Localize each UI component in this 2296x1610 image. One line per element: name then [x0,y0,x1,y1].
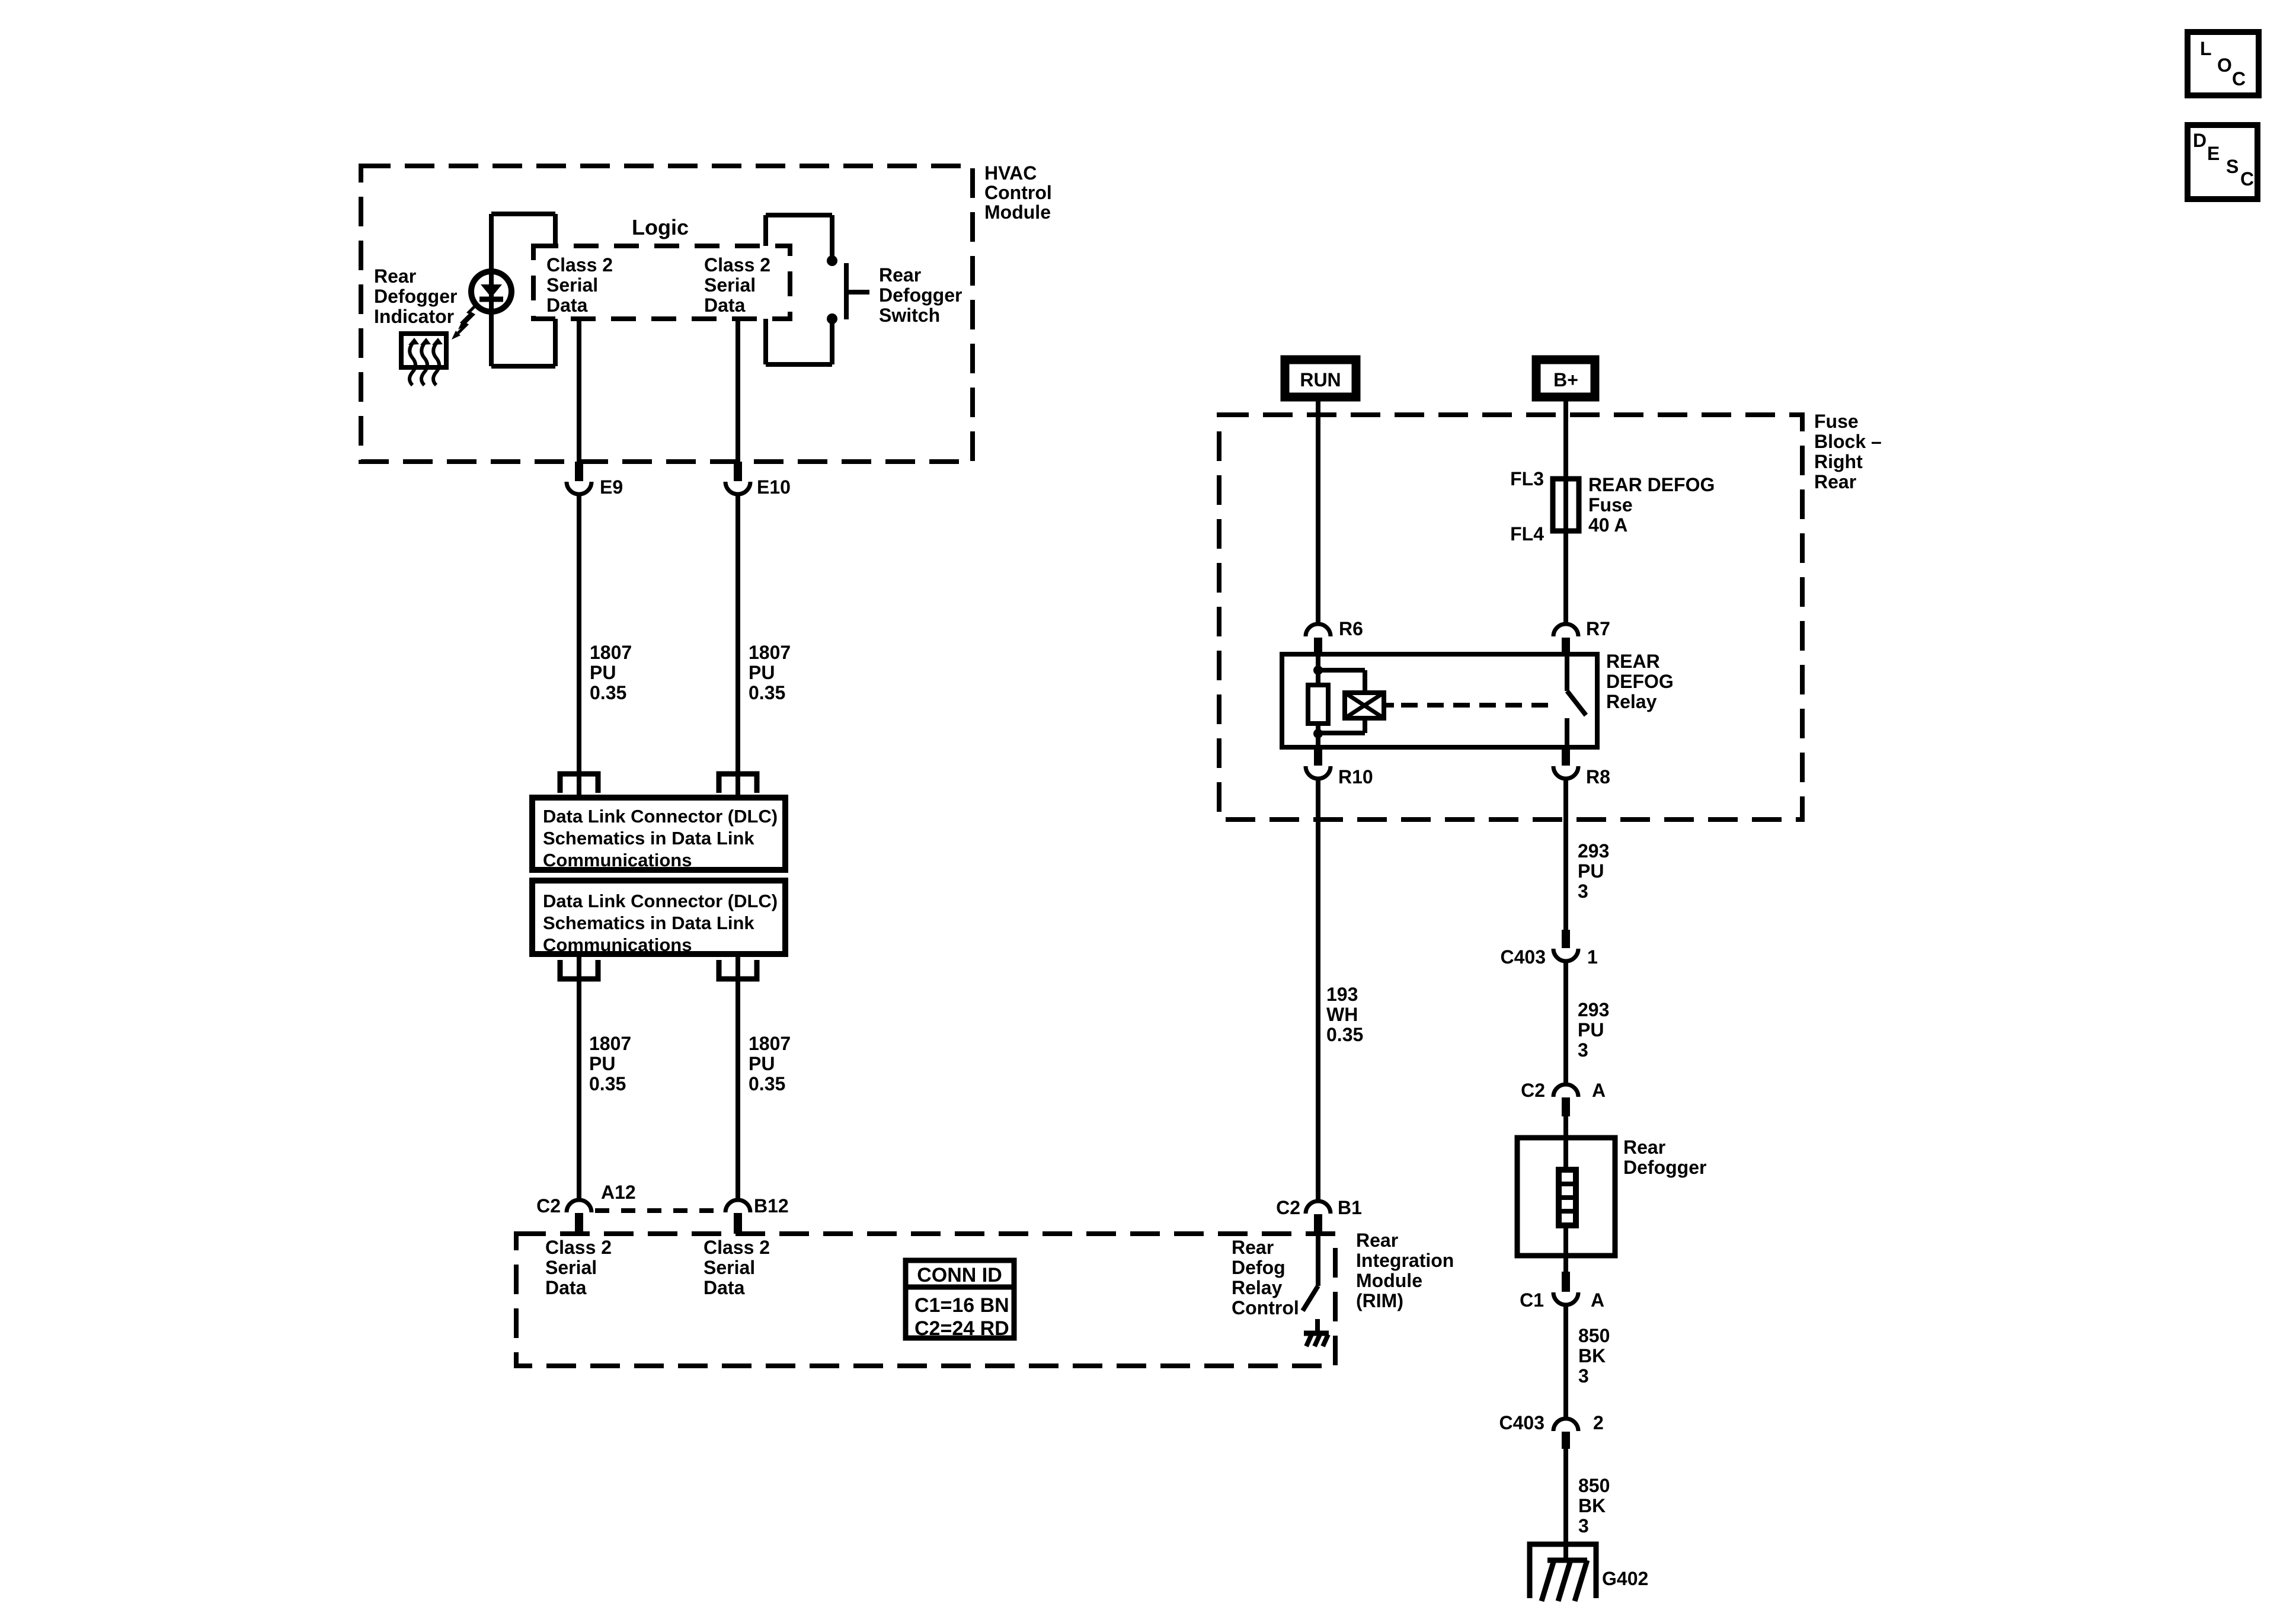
svg-text:FL4: FL4 [1510,523,1544,545]
wire 1807 PU right upper [736,495,740,798]
svg-text:Switch: Switch [879,305,940,326]
svg-text:Rear: Rear [1623,1137,1665,1158]
pin E9 [567,462,591,494]
pin A12 [567,1200,591,1234]
label 1807 PU 0.35 left upper [590,642,632,703]
svg-text:E10: E10 [757,476,791,498]
svg-text:Module: Module [984,201,1051,223]
connector C2 dashed link [595,1208,722,1213]
label 1807 PU 0.35 right lower [749,1033,791,1094]
svg-text:1807: 1807 [590,642,632,663]
Rear Integration Module box [516,1234,1335,1366]
svg-text:PU: PU [1578,1019,1604,1041]
svg-text:C2=24 RD: C2=24 RD [914,1317,1009,1340]
wire 850 BK lower [1563,1449,1568,1560]
wire 293 PU upper [1563,779,1568,930]
svg-text:40 A: 40 A [1588,514,1627,536]
C2 label A12 [536,1195,561,1217]
pin R10 [1306,747,1331,779]
relay linkage [1384,703,1554,708]
E10 label [757,476,791,498]
Rear Defogger Indicator label [374,265,457,327]
ground G402 [1530,1544,1596,1601]
A12 label [601,1182,636,1203]
svg-text:Rear: Rear [1232,1237,1274,1258]
svg-text:Data: Data [545,1277,587,1298]
svg-text:0.35: 0.35 [1326,1024,1363,1045]
svg-text:Class 2: Class 2 [545,1237,612,1258]
svg-text:Fuse: Fuse [1588,494,1633,516]
svg-text:PU: PU [589,1053,615,1074]
connector C2 pin A [1553,1084,1578,1116]
label 293 PU 3 upper [1578,840,1609,902]
svg-text:Rear: Rear [1814,471,1856,492]
pin E10 [725,462,750,494]
relay coil branch [1318,670,1365,733]
svg-text:Serial: Serial [703,1257,755,1278]
Class 2 Serial Data bottom right [703,1237,770,1298]
B1 label [1338,1197,1362,1218]
C403 label 1 [1501,946,1598,968]
svg-text:R8: R8 [1586,766,1610,788]
R8 label [1586,766,1610,788]
pin B1 [1306,1201,1331,1234]
switch actuator [846,263,869,319]
svg-text:PU: PU [590,662,616,683]
DESC icon [2188,125,2257,199]
svg-text:REAR: REAR [1606,651,1660,672]
svg-text:(RIM): (RIM) [1356,1290,1403,1311]
Fuse Block label [1814,411,1882,492]
svg-text:Class 2: Class 2 [546,254,613,276]
svg-text:Data: Data [704,295,746,316]
svg-text:Logic: Logic [632,215,689,239]
E9 label [600,476,623,498]
Class 2 Serial Data bottom left [545,1237,612,1298]
svg-text:B+: B+ [1553,369,1578,391]
RIM ground [1304,1333,1329,1346]
wire 293 PU lower [1563,962,1568,1084]
LED indicator lamp [471,271,511,312]
svg-text:Defogger: Defogger [879,284,962,306]
svg-text:Fuse: Fuse [1814,411,1859,432]
wire 193 WH [1316,779,1320,1201]
svg-text:C2: C2 [1521,1080,1545,1101]
svg-text:Defogger: Defogger [1623,1157,1706,1178]
svg-text:HVAC: HVAC [984,162,1037,184]
wire E10 drop [736,319,740,462]
label 293 PU 3 lower [1578,999,1609,1061]
svg-text:R10: R10 [1338,766,1373,788]
R10 label [1338,766,1373,788]
svg-text:Serial: Serial [704,274,756,296]
Rear Integration Module label [1356,1230,1454,1311]
svg-text:C2: C2 [536,1195,561,1217]
Class 2 Serial Data label left [546,254,613,316]
svg-text:PU: PU [749,662,775,683]
svg-text:C403: C403 [1501,946,1546,968]
svg-text:Class 2: Class 2 [704,254,770,276]
Rear Defogger label [1623,1137,1706,1178]
defogger indicator icon [401,334,446,385]
svg-text:1: 1 [1587,946,1598,968]
label 850 BK 3 upper [1578,1325,1610,1387]
Logic block box [533,246,790,319]
R7 label [1586,618,1610,639]
Data Link Connector box 2 [532,881,785,955]
svg-text:PU: PU [1578,860,1604,882]
svg-text:C: C [2240,168,2254,190]
svg-text:Serial: Serial [546,274,598,296]
relay coil feed [1316,654,1320,670]
svg-text:C1: C1 [1520,1289,1544,1311]
Data Link Connector box 1 [532,798,785,870]
svg-text:REAR DEFOG: REAR DEFOG [1588,474,1715,495]
label 850 BK 3 lower [1578,1475,1610,1537]
label 1807 PU 0.35 left lower [589,1033,631,1094]
wire 850 BK upper [1563,1306,1568,1418]
svg-text:3: 3 [1578,1039,1588,1061]
svg-text:Control: Control [984,182,1052,203]
svg-text:0.35: 0.35 [590,682,626,703]
svg-text:3: 3 [1578,1365,1589,1387]
svg-text:Block –: Block – [1814,431,1882,452]
svg-text:1807: 1807 [749,1033,791,1054]
svg-text:Data: Data [703,1277,745,1298]
svg-text:1807: 1807 [749,642,791,663]
svg-text:R6: R6 [1339,618,1363,639]
svg-text:S: S [2226,156,2239,177]
Rear Defogger Switch label [879,264,962,326]
defogger element [1559,1138,1576,1256]
wire to RIM ground [1315,1319,1320,1333]
svg-text:R7: R7 [1586,618,1610,639]
rear defogger switch contacts [827,255,837,324]
svg-text:A: A [1592,1080,1606,1101]
CONN ID table [903,1260,1016,1340]
wire E9 drop [577,319,581,462]
relay resistor [1308,670,1328,733]
wire defogger out [1563,1256,1568,1272]
pin R8 [1553,747,1578,779]
wire relay control [1316,1234,1320,1286]
fuse label [1588,474,1715,536]
svg-text:193: 193 [1326,984,1358,1005]
svg-text:E: E [2207,143,2220,164]
wire switch loop [766,215,832,364]
svg-text:BK: BK [1578,1495,1606,1516]
svg-text:0.35: 0.35 [749,682,785,703]
G402 label [1602,1568,1648,1589]
svg-text:C: C [2232,68,2246,89]
DLC top connector brackets [560,774,757,793]
svg-text:B1: B1 [1338,1197,1362,1218]
svg-text:B12: B12 [754,1195,789,1217]
fuse REAR DEFOG 40A [1553,479,1579,531]
svg-text:WH: WH [1326,1004,1358,1025]
R6 label [1339,618,1363,639]
connector C403 pin 2 [1553,1419,1578,1449]
svg-text:Class 2: Class 2 [703,1237,770,1258]
label 1807 PU 0.35 right upper [749,642,791,703]
C2 label defogger [1521,1080,1606,1101]
FL4 label [1510,523,1544,545]
pin R7 [1553,624,1578,654]
C1 label [1520,1289,1604,1311]
Class 2 Serial Data label right [704,254,770,316]
wire 1807 PU right lower [736,954,740,1200]
wire 1807 PU left upper [577,495,581,798]
svg-text:293: 293 [1578,999,1609,1020]
svg-text:Data: Data [546,295,588,316]
wire fuse to R7 [1563,536,1568,624]
svg-text:Defogger: Defogger [374,286,457,307]
svg-text:1807: 1807 [589,1033,631,1054]
svg-text:Schematics in Data Link: Schematics in Data Link [543,828,754,849]
svg-text:C2: C2 [1276,1197,1300,1218]
svg-text:Relay: Relay [1232,1277,1283,1298]
svg-text:3: 3 [1578,1515,1589,1537]
svg-text:3: 3 [1578,881,1588,902]
relay coil element [1345,693,1384,718]
svg-text:293: 293 [1578,840,1609,862]
svg-text:Data Link Connector (DLC): Data Link Connector (DLC) [543,806,778,827]
Rear Defogger box [1517,1138,1615,1256]
connector C403 pin 1 [1553,930,1578,961]
wire resistor out [1316,734,1320,747]
Logic label [632,215,689,239]
svg-text:CONN ID: CONN ID [917,1264,1002,1286]
C403 label 2 [1499,1412,1604,1433]
junction dot bottom [1313,729,1323,738]
svg-text:C1=16 BN: C1=16 BN [914,1294,1009,1317]
B12 label [754,1195,789,1217]
svg-text:Module: Module [1356,1270,1422,1291]
HVAC Control Module box [361,166,973,462]
wire 1807 PU left lower [577,954,581,1200]
svg-text:Rear: Rear [1356,1230,1398,1251]
RIM switch blade [1303,1286,1318,1311]
junction dot top [1313,665,1323,675]
LED light arrows [452,303,478,340]
svg-text:Relay: Relay [1606,691,1657,712]
svg-text:PU: PU [749,1053,775,1074]
svg-text:L: L [2200,38,2212,59]
label 193 WH 0.35 [1326,984,1363,1045]
pin B12 [725,1200,750,1234]
svg-text:E9: E9 [600,476,623,498]
svg-text:A: A [1591,1289,1604,1311]
svg-text:C403: C403 [1499,1412,1545,1433]
wire to defogger [1563,1116,1568,1138]
svg-text:Rear: Rear [879,264,921,286]
svg-text:Schematics in Data Link: Schematics in Data Link [543,913,754,933]
C2 label B1 [1276,1197,1300,1218]
REAR DEFOG Relay box [1282,654,1597,747]
svg-text:Serial: Serial [545,1257,597,1278]
wire LED loop [491,214,555,366]
relay switch [1567,654,1586,747]
svg-text:0.35: 0.35 [589,1073,626,1094]
Fuse Block box [1219,415,1802,820]
FL3 label [1510,468,1544,489]
wire B+ to fuse [1563,401,1568,536]
svg-text:Communications: Communications [543,934,692,955]
svg-text:BK: BK [1578,1345,1606,1366]
svg-text:O: O [2217,55,2232,76]
DLC bottom connector brackets [560,960,757,979]
svg-text:Data Link Connector (DLC): Data Link Connector (DLC) [543,891,778,911]
svg-text:DEFOG: DEFOG [1606,671,1674,692]
svg-text:RUN: RUN [1300,369,1341,391]
HVAC Control Module label [984,162,1052,223]
svg-text:D: D [2193,130,2207,151]
svg-text:Integration: Integration [1356,1250,1454,1271]
svg-text:Indicator: Indicator [374,306,454,327]
svg-text:G402: G402 [1602,1568,1648,1589]
svg-text:850: 850 [1578,1325,1610,1346]
svg-text:Rear: Rear [374,265,416,287]
svg-text:0.35: 0.35 [749,1073,785,1094]
svg-text:Right: Right [1814,451,1863,472]
B+ feed box [1536,360,1595,397]
svg-text:2: 2 [1593,1412,1604,1433]
svg-text:Control: Control [1232,1297,1299,1318]
svg-text:Communications: Communications [543,850,692,870]
connector C1 pin A [1553,1272,1578,1305]
svg-text:FL3: FL3 [1510,468,1544,489]
REAR DEFOG Relay label [1606,651,1674,712]
pin R6 [1306,624,1331,654]
LOC icon [2188,32,2259,95]
svg-text:Defog: Defog [1232,1257,1285,1278]
RUN feed box [1285,360,1356,397]
wire RUN to R6 [1316,401,1320,624]
svg-text:A12: A12 [601,1182,636,1203]
Rear Defog Relay Control label [1232,1237,1299,1318]
svg-text:850: 850 [1578,1475,1610,1496]
